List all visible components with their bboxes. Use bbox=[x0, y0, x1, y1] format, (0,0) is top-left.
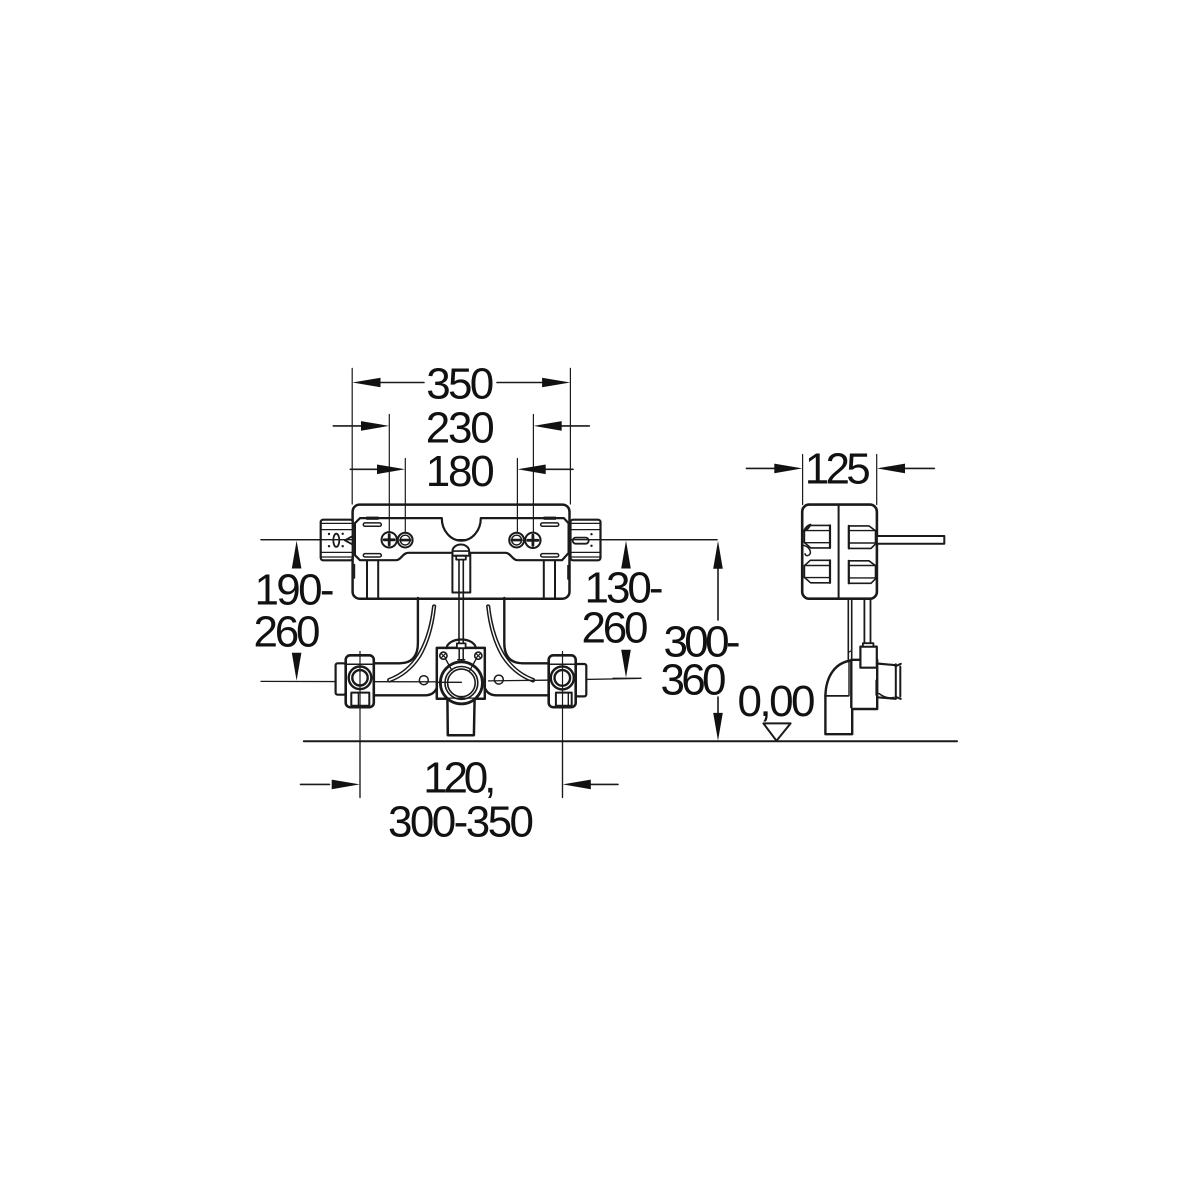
column right edge with fillet bbox=[504, 598, 548, 663]
centerline lower (valve axis) bbox=[261, 680, 462, 683]
left brace curve bbox=[389, 606, 435, 682]
elbow bend arc bbox=[825, 661, 851, 696]
arm bottom edge right bbox=[485, 688, 549, 695]
right inlet connector bbox=[571, 520, 601, 561]
dim 180 bbox=[350, 468, 573, 470]
rear tube down bbox=[848, 599, 851, 660]
small hole left of valve bbox=[419, 676, 428, 685]
threaded rod down to valve bbox=[459, 560, 463, 644]
datum triangle 0,00 bbox=[763, 723, 790, 740]
stem tube down bbox=[864, 599, 870, 643]
dim 300-360 bbox=[717, 568, 719, 620]
body legs below plate bbox=[367, 561, 555, 598]
cutout top-right bbox=[849, 526, 876, 549]
fitting centrelines bbox=[359, 652, 361, 798]
svg-text:260: 260 bbox=[254, 607, 321, 656]
valve outlet below bbox=[447, 699, 474, 736]
floor line bbox=[304, 740, 957, 742]
svg-text:120,: 120, bbox=[423, 753, 496, 802]
arm bottom edge left bbox=[374, 688, 437, 695]
svg-text:350: 350 bbox=[426, 360, 494, 409]
valve dome top bbox=[447, 640, 476, 649]
plate top tabs bbox=[366, 517, 378, 520]
rear tube line crossing elbow bend bbox=[848, 660, 850, 696]
clip hook lower bbox=[804, 545, 811, 555]
left wall fitting body bbox=[346, 655, 374, 707]
plate slots bbox=[363, 523, 381, 526]
outlet spout bbox=[879, 666, 896, 698]
svg-text:260: 260 bbox=[582, 603, 649, 652]
dim 230 bbox=[333, 425, 589, 427]
main body (front view) bbox=[353, 505, 570, 599]
screw slotted right bbox=[509, 533, 524, 548]
valve stem in square bbox=[458, 648, 465, 660]
130-260 lower tick bbox=[613, 677, 641, 679]
valve diagonal struts bbox=[446, 659, 476, 670]
screw slotted left bbox=[398, 533, 413, 548]
extension lines bbox=[351, 368, 353, 504]
centerline upper redraw over connectors bbox=[261, 539, 717, 541]
column left edge with fillet bbox=[374, 598, 418, 663]
right wall fitting collar bbox=[576, 664, 587, 696]
clip hook upper bbox=[804, 524, 811, 531]
dim 130-260 arrows bbox=[621, 541, 631, 569]
elbow body bbox=[851, 660, 877, 709]
valve rings bbox=[440, 662, 482, 704]
left wall fitting collar bbox=[336, 663, 346, 694]
screw phillips right bbox=[525, 533, 540, 548]
dim 350 bbox=[381, 382, 543, 384]
right brace curve bbox=[487, 606, 533, 682]
centerline upper (mounting body axis) bbox=[261, 539, 717, 541]
dim 120/300-350 bbox=[301, 783, 619, 785]
screw phillips left bbox=[382, 532, 397, 547]
right wall fitting body bbox=[549, 655, 576, 707]
cutout top-left bbox=[804, 525, 830, 548]
svg-text:360: 360 bbox=[661, 656, 727, 705]
svg-text:300-350: 300-350 bbox=[388, 797, 534, 846]
left inlet connector bbox=[321, 520, 353, 561]
svg-text:125: 125 bbox=[805, 444, 871, 493]
wall rod bbox=[877, 536, 944, 544]
svg-text:0,00: 0,00 bbox=[738, 677, 816, 726]
svg-text:180: 180 bbox=[426, 447, 495, 496]
box divider bbox=[838, 506, 840, 598]
small hole right of valve bbox=[494, 675, 503, 684]
mounting plate bbox=[355, 518, 569, 560]
cutout bottom-right bbox=[849, 561, 876, 584]
cap (dome bolt) on plate bbox=[453, 544, 470, 555]
side view box bbox=[802, 505, 877, 599]
valve centre tick bbox=[437, 681, 462, 683]
centre channel below cap bbox=[452, 553, 470, 592]
body side seam ticks bbox=[353, 565, 355, 579]
elbow downpipe bbox=[825, 696, 852, 734]
cutout bottom-left bbox=[804, 560, 830, 583]
stem connector block bbox=[860, 647, 876, 668]
svg-text:230: 230 bbox=[426, 403, 495, 452]
valve corner screws bbox=[440, 652, 447, 659]
dim 125 bbox=[746, 467, 934, 469]
valve body square bbox=[437, 648, 485, 699]
dim 190-260 arrows bbox=[292, 541, 302, 569]
